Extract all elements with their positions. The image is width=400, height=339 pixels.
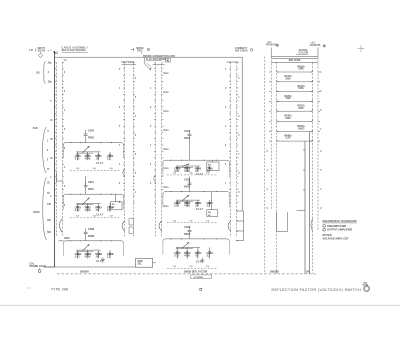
svg-text:NOTE: NOTE: [363, 285, 369, 287]
svg-text:PREAMPLIFIER: PREAMPLIFIER: [327, 224, 346, 228]
switch wafer S1C contact ticks: [154, 63, 163, 203]
svg-text:SW530A: SW530A: [80, 270, 89, 273]
connector contact finger boxes: [236, 211, 243, 241]
stage 530C side edges: [162, 242, 164, 255]
svg-text:470K: 470K: [184, 205, 190, 208]
node input junction: [53, 51, 56, 55]
bracket x10 range: [43, 127, 47, 173]
attenuator stack top double line: [271, 55, 318, 57]
svg-text:SEL: SEL: [137, 264, 142, 266]
node ground symbol right: [323, 45, 325, 47]
stage 510 top wire: [63, 194, 123, 197]
wire stub right column: [297, 150, 306, 211]
svg-text:R505: R505: [88, 137, 95, 140]
wire interstage left A: [85, 176, 87, 185]
stage 520 inner wire: [176, 199, 200, 201]
svg-text:2.5K: 2.5K: [286, 138, 291, 140]
wire atten right top drop: [317, 48, 319, 57]
stage 530C top wire junction dots: [170, 238, 171, 239]
stage 520 sub box: [207, 210, 218, 217]
stage 520 input capacitor: [188, 182, 192, 184]
attenuator section row R420A: [277, 100, 313, 102]
stage 530B ground: [102, 257, 104, 259]
svg-text:470K: 470K: [85, 157, 91, 160]
stage 510 sub box: [111, 202, 123, 210]
svg-text:TYPE 3A6: TYPE 3A6: [51, 288, 68, 292]
svg-text:X1: X1: [36, 70, 40, 74]
mode switch label: [131, 49, 134, 51]
stage 530B side edges: [62, 243, 64, 256]
svg-text:BAL R400: BAL R400: [289, 59, 301, 62]
stage 530B input capacitor: [84, 231, 88, 233]
stage 530B inner wire second: [76, 250, 93, 252]
svg-text:TRIG: TRIG: [137, 51, 143, 53]
switch wafer S1A contact ticks: [55, 63, 64, 203]
stage 520 capacitor wire: [189, 184, 191, 191]
stage 530C ground: [201, 258, 203, 260]
stage 520 contact dashed row: [167, 222, 217, 224]
svg-text:1/2 SW530: 1/2 SW530: [194, 277, 204, 279]
switch wafer S1B top bar: [122, 64, 137, 66]
stage 516 component legs: [176, 166, 178, 171]
svg-text:OUTPUT AMPLIFIER: OUTPUT AMPLIFIER: [327, 228, 352, 232]
switch wafer S1C rail left: [155, 63, 157, 237]
switch wafer S1D contact ticks: [229, 63, 238, 203]
cal jack symbol: [38, 270, 41, 273]
switch wafer S1D bottom hook: [228, 221, 231, 231]
stage 520 variable arrow: [182, 195, 189, 201]
svg-text:250K: 250K: [298, 108, 304, 110]
stage 520 sub box wire: [211, 192, 213, 210]
stage 516 top wire junction dots: [170, 160, 171, 161]
brace x1 range: [43, 62, 46, 84]
svg-text:C510: C510: [88, 181, 95, 184]
stage 510 component legs: [77, 204, 79, 212]
svg-text:100K: 100K: [285, 98, 291, 100]
svg-text:1 MEG: 1 MEG: [298, 128, 305, 130]
switch wafer S1C top bar: [153, 64, 165, 66]
svg-text:SW530B: SW530B: [270, 271, 279, 273]
stage 505 top wire: [63, 143, 123, 146]
stage 530B inner wire: [76, 249, 100, 251]
stage 530C capacitor wire: [189, 232, 191, 239]
stage 530B capacitor wire: [85, 234, 87, 241]
svg-text:2mm: 2mm: [163, 206, 168, 208]
stage 516 inner wire: [176, 165, 200, 167]
svg-text:X100: X100: [33, 210, 40, 214]
svg-text:PROBE CONNECTION FOR: PROBE CONNECTION FOR: [143, 55, 175, 58]
page left margin dash: [28, 287, 31, 289]
svg-text:X10: X10: [33, 126, 38, 130]
svg-text:VOLTS/DIV: VOLTS/DIV: [121, 61, 134, 64]
stage 505 side edges: [62, 145, 64, 158]
wire cal to bus: [44, 266, 56, 268]
page bottom edge shadow line: [0, 304, 400, 306]
wire input to bus: [48, 49, 53, 51]
stage 520 top wire junction dots: [170, 191, 171, 192]
wire interstage mid A: [189, 177, 191, 186]
node test point TP1: [250, 49, 253, 52]
switch wafer S1A bottom hook: [60, 219, 63, 233]
stage 510 inner wire second: [76, 204, 93, 206]
svg-text:R532: R532: [64, 238, 70, 240]
svg-text:REFERENCE DIAGRAMS: REFERENCE DIAGRAMS: [323, 219, 357, 223]
wire main signal bus: [55, 56, 243, 58]
attenuator stack right rail: [317, 56, 319, 230]
svg-text:1mm: 1mm: [163, 111, 168, 113]
stage 516 sub box wire: [211, 161, 213, 163]
svg-text:5mm: 5mm: [163, 73, 168, 75]
switch wafer S1B rail right: [132, 63, 134, 237]
stage 530C component legs: [176, 247, 178, 259]
wire L3 stub to heavy line: [59, 240, 64, 242]
wire attenuator drop B: [304, 141, 306, 274]
svg-text:4B: 4B: [166, 59, 169, 62]
svg-text:500K: 500K: [298, 88, 304, 90]
svg-text:C505: C505: [88, 130, 95, 133]
attenuator section row R435A: [277, 131, 313, 133]
stage 510 side edges: [62, 197, 64, 210]
svg-text:SEE IF NOT SHOWN: SEE IF NOT SHOWN: [62, 49, 86, 52]
stage 530B component legs: [77, 250, 79, 258]
svg-text:3-12: 3-12: [174, 254, 180, 257]
switch wafer S1B mid hook: [123, 169, 125, 177]
reference item 1: [323, 225, 326, 228]
switch wafer S1D top bar: [227, 61, 239, 63]
stage 510 contact dashed row: [70, 217, 121, 219]
stage 516 sub box: [207, 162, 219, 171]
switch wafer S1B bottom hook: [122, 221, 125, 231]
stage 530C top wire: [163, 239, 230, 242]
wire attenuator drop A: [308, 132, 310, 274]
stage 530C input capacitor: [188, 229, 192, 231]
stage 530C variable arrow: [182, 242, 189, 248]
node wafer top contact: [56, 52, 58, 54]
svg-text:CAL/CM: CAL/CM: [298, 52, 308, 55]
svg-text:500K: 500K: [285, 118, 291, 120]
svg-text:C1 4.7: C1 4.7: [196, 173, 204, 176]
stage 520 component legs: [176, 200, 178, 207]
wire attenuator left outer drop: [264, 57, 266, 274]
svg-text:2mm: 2mm: [163, 92, 168, 94]
wire input drop heavy: [54, 51, 56, 267]
wire R536 to wafer: [153, 262, 156, 264]
attenuator section row R410A: [277, 81, 313, 83]
registration mark: [358, 48, 365, 50]
resistor box R536: [136, 258, 153, 267]
svg-text:R30B: R30B: [88, 235, 95, 238]
svg-text:FROM 5B: FROM 5B: [310, 45, 321, 47]
svg-text:R536: R536: [137, 261, 143, 263]
svg-text:C1 4.7: C1 4.7: [96, 260, 104, 263]
stage 505 component legs: [77, 152, 79, 160]
svg-text:470K: 470K: [184, 254, 190, 257]
stage 530C inner wire second: [176, 248, 193, 250]
svg-text:SW530 DEFL FACTOR: SW530 DEFL FACTOR: [184, 270, 208, 273]
node ground symbol left: [276, 44, 278, 46]
switch wafer S1D rail left: [230, 62, 232, 237]
reference item 2: [323, 228, 326, 231]
switch wafer S1B bottom boxes: [129, 219, 133, 234]
stage 516 side edges: [162, 163, 164, 176]
attenuator section row R440A: [277, 140, 313, 142]
attenuator balance box: [271, 61, 318, 63]
stage 530C contact dashed row: [167, 267, 217, 269]
switch wafer S1B rail left: [124, 63, 126, 237]
switch arm arrow: [144, 63, 150, 70]
attenuator section row R405A: [277, 71, 313, 73]
svg-text:C1 4.7: C1 4.7: [96, 162, 104, 165]
svg-text:5mm: 5mm: [163, 187, 168, 189]
svg-text:1 A: 1 A: [64, 59, 68, 62]
attenuator section row R430A: [277, 120, 313, 122]
diagram reference symbol: [364, 286, 370, 292]
attenuator stack left rail: [270, 56, 272, 210]
svg-text:3-12: 3-12: [75, 157, 81, 160]
stage 510 capacitor wire: [85, 187, 87, 194]
stage 530B variable arrow: [82, 244, 89, 251]
stage 520 side edges: [162, 194, 164, 207]
switch wafer S1C bottom hook: [159, 221, 162, 231]
svg-text:R510: R510: [88, 188, 95, 191]
switch wafer S1A rail right: [61, 62, 63, 237]
svg-text:1 M: 1 M: [29, 50, 33, 52]
svg-text:DEFLECTION FACTOR (VOLTS/DIV: DEFLECTION FACTOR (VOLTS/DIV) SWITCH: [272, 288, 362, 292]
attenuator section row R425A: [277, 110, 313, 112]
stage 516 top wire: [163, 160, 230, 163]
svg-text:FROM 5B: FROM 5B: [266, 45, 277, 47]
input connector J1 symbol: [38, 53, 42, 57]
svg-text:470K: 470K: [85, 256, 91, 259]
svg-text:5mm: 5mm: [163, 130, 168, 132]
switch wafer S1C rail right: [161, 63, 163, 237]
stage 505 top wire junction dots: [70, 142, 71, 143]
wire atten left top drop: [270, 48, 272, 57]
svg-text:C30B: C30B: [88, 228, 95, 231]
switch wafer S1A rail left: [55, 62, 57, 237]
svg-text:250K: 250K: [285, 78, 291, 80]
wire bottom bus left: [44, 266, 136, 268]
stage 530B top wire junction dots: [70, 240, 71, 241]
stage 530B top wire: [63, 241, 123, 244]
stage 510 inner wire: [76, 203, 100, 205]
svg-text:2mm: 2mm: [163, 149, 168, 151]
stage 520 inner wire second: [176, 200, 193, 202]
svg-text:600 V MAX: 600 V MAX: [235, 49, 248, 52]
switch wafer S1C mid hook: [154, 175, 156, 183]
svg-text:IF AC GROUNDED: IF AC GROUNDED: [146, 58, 167, 61]
stage 516 variable arrow: [182, 164, 189, 167]
svg-text:C1 4.7: C1 4.7: [196, 208, 204, 211]
stage 530C inner wire: [176, 246, 200, 248]
wire mode drop: [143, 57, 145, 63]
stage 505 inner wire second: [76, 152, 93, 154]
stage 505 capacitor wire: [85, 135, 87, 142]
stage 505 inner wire: [76, 151, 100, 153]
svg-text:C1 4.7: C1 4.7: [96, 213, 104, 216]
bracket x100 range: [43, 178, 47, 241]
stage 505 contact dashed row: [70, 169, 121, 171]
stage 510 variable arrow: [82, 198, 89, 205]
stage 516 input capacitor: [188, 133, 192, 135]
bottom center symbol: [200, 288, 202, 290]
stage 516 inner wire second: [176, 166, 193, 168]
wire bus corner drop: [241, 57, 243, 211]
svg-text:1mm: 1mm: [163, 168, 168, 170]
svg-text:470K: 470K: [85, 209, 91, 212]
stage 520 top wire: [163, 192, 230, 195]
attenuator section row R415A: [277, 91, 313, 93]
svg-text:VOLTAGE AMPL CKT: VOLTAGE AMPL CKT: [323, 236, 350, 240]
svg-text:PROBE LOAD: PROBE LOAD: [29, 265, 46, 268]
stage 505 input capacitor: [84, 133, 88, 135]
svg-text:100K: 100K: [298, 69, 304, 71]
svg-text:C1 4.7: C1 4.7: [196, 261, 204, 264]
switch wafer S1B contact ticks: [123, 63, 135, 203]
attenuator stack hooks bottom: [277, 212, 288, 232]
svg-text:SIG IN: SIG IN: [38, 49, 46, 52]
svg-text:3-12: 3-12: [75, 256, 81, 259]
stage 510 top wire junction dots: [70, 194, 71, 195]
right rail bottom hook: [311, 219, 313, 232]
stage 516 capacitor wire: [189, 136, 191, 161]
switch wafer S1D rail right: [236, 62, 238, 237]
wire S1A bottom jog: [56, 173, 63, 182]
switch gang dashed line: [57, 273, 318, 275]
stage 516 contact dashed row: [167, 174, 217, 176]
stage 510 sub box wire: [115, 195, 117, 202]
stage 505 variable arrow: [82, 146, 89, 153]
svg-text:3-12: 3-12: [75, 209, 81, 212]
stage 510 input capacitor: [84, 185, 88, 187]
svg-text:3-12: 3-12: [174, 205, 180, 208]
